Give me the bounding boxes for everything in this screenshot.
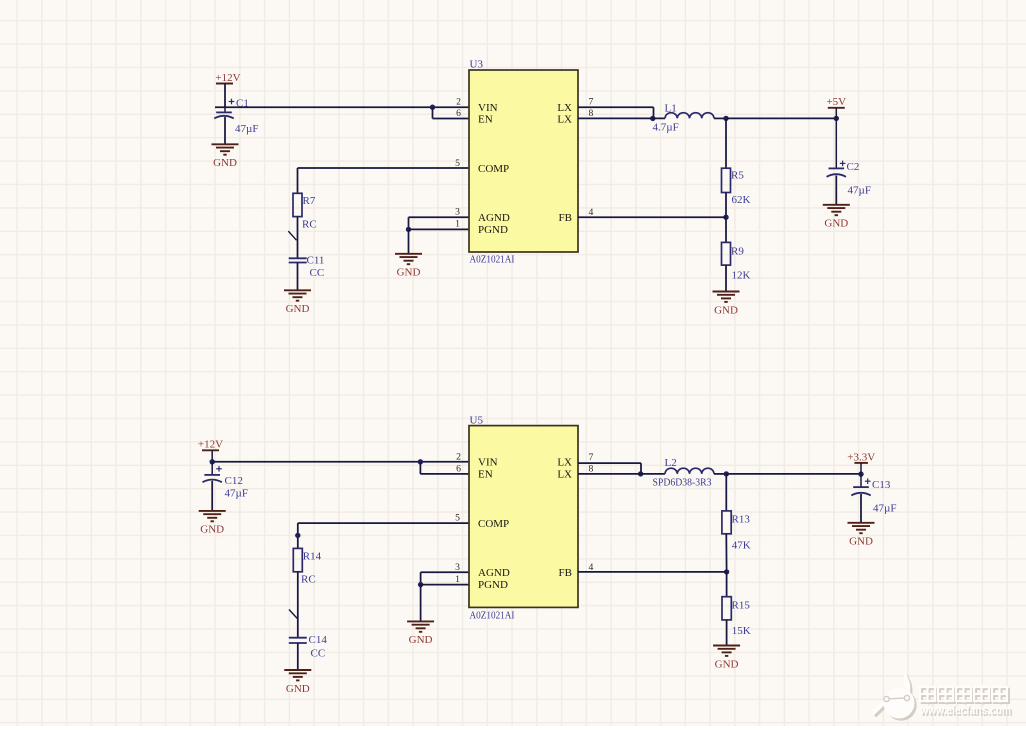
svg-text:4.7µF: 4.7µF [653,122,679,134]
regulator U5 body [469,426,578,608]
power +12V (bottom) [198,439,223,451]
svg-text:COMP: COMP [478,518,509,530]
svg-text:U5: U5 [470,414,484,426]
capacitor C11 [289,258,307,262]
svg-text:47K: 47K [732,540,751,552]
node LX junction (bottom) [638,471,643,476]
svg-text:15K: 15K [732,625,751,637]
ground (C13) [848,523,875,548]
svg-text:PGND: PGND [478,579,508,591]
node LX junction [650,116,655,121]
svg-text:3: 3 [455,207,460,218]
ground (C11) [284,290,311,315]
svg-text:LX: LX [557,102,572,114]
svg-text:A0Z1021AI: A0Z1021AI [470,254,515,266]
svg-text:C12: C12 [225,475,243,487]
svg-text:AGND: AGND [478,567,510,579]
node C12 junction [210,459,215,464]
wire FB (bottom) [578,571,727,573]
svg-text:C14: C14 [309,634,328,646]
capacitor C12 plates [203,475,222,482]
wire FB [578,216,726,218]
capacitor C14 [289,638,307,643]
svg-text:A0Z1021AI: A0Z1021AI [470,610,515,622]
svg-text:GND: GND [286,683,310,695]
svg-text:47µF: 47µF [873,503,896,515]
svg-text:2: 2 [456,452,461,463]
wire PGND [409,228,470,230]
wire +12V stub (bottom) [211,450,213,462]
svg-text:PGND: PGND [478,224,508,236]
svg-text:GND: GND [286,303,310,315]
wire R14 to C14 [297,572,299,638]
resistor R7 [293,193,302,216]
wire LX pin8 [578,117,665,119]
wire COMP (bottom) [298,522,469,524]
ground (R9) [713,292,740,317]
svg-text:+12V: +12V [198,439,223,451]
watermark logo [875,675,917,721]
svg-text:3: 3 [455,562,460,573]
wire R9 to ground [725,265,727,291]
wire LX pin7 (bottom) [578,462,641,464]
svg-text:C13: C13 [872,479,891,491]
svg-text:C11: C11 [307,255,325,267]
svg-text:+3.3V: +3.3V [847,451,875,463]
capacitor C1 [224,107,226,112]
svg-text:FB: FB [559,567,572,579]
svg-text:6: 6 [456,464,461,475]
wire PGND (bottom) [421,584,469,586]
svg-text:47µF: 47µF [235,123,258,135]
wire R15 to ground [726,620,728,646]
wire EN jog (bottom) [419,462,421,474]
svg-text:R9: R9 [731,245,744,257]
svg-text:RC: RC [301,574,316,586]
svg-text:GND: GND [200,524,224,536]
regulator U3 body [469,70,578,252]
node L2 output [724,471,729,476]
wire R13 to FB node [725,534,727,572]
svg-text:47µF: 47µF [225,488,248,500]
svg-text:12K: 12K [732,269,751,281]
wire EN jog [432,107,434,118]
svg-text:CC: CC [310,267,325,279]
wire LX pin8 (bottom) [578,473,665,475]
svg-text:62K: 62K [732,194,751,206]
svg-text:GND: GND [714,304,738,316]
svg-text:47µF: 47µF [848,184,871,196]
resistor R13 [722,511,731,534]
node FB junction (bottom) [724,569,729,574]
wire C14 to ground [297,643,299,670]
node COMP junction (bottom) [295,533,300,538]
svg-text:1: 1 [455,574,460,585]
wire node to R5 [725,118,727,168]
svg-text:AGND: AGND [478,212,510,224]
wire +12V rail [215,106,469,108]
node +5V junction [834,116,839,121]
svg-text:LX: LX [557,457,572,469]
ground (AGND/PGND bottom) [407,621,434,646]
svg-text:VIN: VIN [478,457,498,469]
svg-text:FB: FB [559,212,572,224]
wire C13 to ground [860,494,862,523]
ground (AGND/PGND) [395,254,422,279]
ground (C2) [823,205,850,230]
no-ERC slash (bottom) [289,610,297,619]
wire +3.3V rail [726,473,861,475]
svg-text:VIN: VIN [478,102,498,114]
svg-text:C2: C2 [847,161,860,173]
node VIN/EN junction [430,105,435,110]
svg-text:8: 8 [589,464,594,475]
resistor R14 [293,548,302,571]
inductor L2 [665,468,714,474]
power +5V [826,96,846,108]
wire +12V rail (bottom) [212,461,469,463]
ground (C12) [199,511,226,536]
wire L1 to node [714,117,726,119]
svg-text:GND: GND [409,634,433,646]
svg-text:RC: RC [302,219,317,231]
svg-text:GND: GND [849,536,873,548]
svg-text:LX: LX [557,469,572,481]
capacitor C12 [211,462,213,475]
wire +3.3V stub down [860,463,862,487]
ground (C1) [212,144,239,169]
svg-text:GND: GND [824,218,848,230]
node AGND/PGND junction (bottom) [418,582,423,587]
node FB junction [723,215,728,220]
ground (C14) [284,670,311,695]
wire FB node to R9 [725,217,727,242]
wire C1 to ground [224,117,226,144]
wire C11 to ground [297,263,299,291]
svg-text:6: 6 [456,108,461,119]
wire C12 to ground [211,481,213,511]
wire L2 to node [714,473,726,475]
svg-text:C1: C1 [236,97,249,109]
wire R7 to C11 [297,217,299,259]
power +12V (top) [215,72,240,84]
svg-text:R14: R14 [303,550,322,562]
wire C2 to ground [835,176,837,205]
svg-text:GND: GND [213,157,237,169]
svg-text:L2: L2 [665,457,677,469]
svg-text:EN: EN [478,114,493,126]
wire to ground (AGND bottom) [420,585,422,622]
svg-text:5: 5 [455,158,460,169]
resistor R15 [722,597,731,620]
svg-text:R15: R15 [732,600,751,612]
svg-text:R7: R7 [303,195,316,207]
inductor L1 [665,113,714,119]
svg-text:1: 1 [455,219,460,230]
wire FB node to R15 [726,572,728,597]
node AGND/PGND junction [406,227,411,232]
svg-text:GND: GND [397,267,421,279]
ground (R15) [713,646,740,671]
svg-text:5: 5 [455,513,460,524]
node VIN/EN junction (bottom) [418,459,423,464]
watermark CJK text [922,686,1009,704]
node +3.3V junction [858,471,863,476]
no-ERC slash (top) [288,231,296,240]
svg-text:GND: GND [715,658,739,670]
wire R5 to FB node [725,193,727,218]
wire COMP [298,167,470,169]
wire AGND [409,216,470,218]
svg-text:+12V: +12V [215,72,240,84]
svg-text:SPD6D38-3R3: SPD6D38-3R3 [653,477,712,489]
resistor R9 [722,242,731,265]
wire to ground (AGND) [408,229,410,253]
svg-text:L1: L1 [665,102,677,114]
svg-text:CC: CC [311,648,326,660]
wire +5V stub down [835,108,837,169]
svg-text:LX: LX [557,114,572,126]
wire AGND (bottom) [421,571,469,573]
wire +5V rail [726,117,836,119]
wire +12V stub [224,84,226,108]
power +3.3V [847,451,875,463]
resistor R5 [722,168,731,192]
capacitor C2 plates [827,168,846,176]
svg-text:EN: EN [478,469,493,481]
node L1 output [723,116,728,121]
svg-text:COMP: COMP [478,163,509,175]
capacitor C13 plates [851,487,870,495]
svg-text:7: 7 [589,452,594,463]
wire LX pin7 [578,106,654,108]
svg-text:www.elecfans.com: www.elecfans.com [919,703,1011,717]
svg-text:7: 7 [589,97,594,108]
capacitor C1 plates [214,112,233,118]
svg-text:U3: U3 [470,59,484,71]
svg-text:R5: R5 [731,169,744,181]
svg-text:+5V: +5V [826,96,846,108]
wire node to R13 [725,474,727,511]
svg-text:2: 2 [456,97,461,108]
svg-text:R13: R13 [732,514,751,526]
